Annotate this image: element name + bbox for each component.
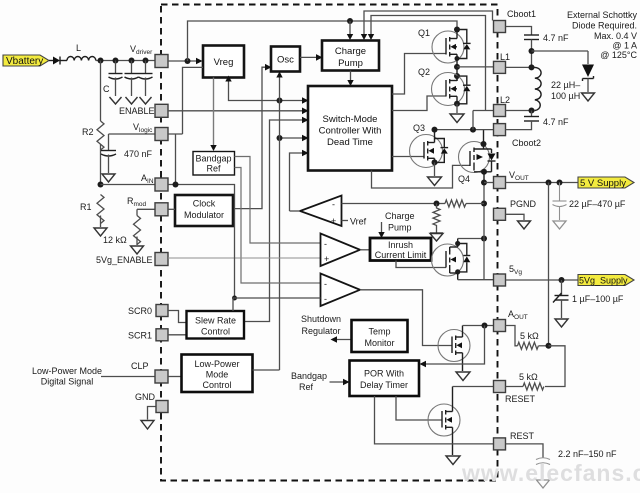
ground under 1uF xyxy=(555,319,568,327)
wire A_OUT node to POR input arrow xyxy=(420,326,485,368)
wire SCR0 to Slew Rate Control xyxy=(168,311,187,323)
wire Low-Power Control output riser xyxy=(253,369,280,371)
wire U3 output to A_OUT transistor gate xyxy=(360,290,452,346)
block Switch-Mode Controller With Dead Time xyxy=(308,86,392,171)
ground under divider xyxy=(430,233,443,241)
svg-text:Cboot1: Cboot1 xyxy=(507,9,536,19)
svg-text:Controller With: Controller With xyxy=(319,126,382,137)
svg-text:Charge: Charge xyxy=(335,46,366,57)
wire GND pin to ground xyxy=(148,407,157,420)
svg-text:Diode Required.: Diode Required. xyxy=(572,21,637,31)
ground under 2.2nF xyxy=(537,480,550,488)
svg-text:Slew Rate: Slew Rate xyxy=(195,316,236,326)
op-amp comparator U3 xyxy=(321,274,361,307)
label external Schottky note xyxy=(567,10,638,60)
svg-text:Vreg: Vreg xyxy=(214,57,234,68)
svg-text:Low-Power: Low-Power xyxy=(194,359,239,369)
pin L2 xyxy=(494,95,511,117)
svg-text:Dead Time: Dead Time xyxy=(327,137,373,148)
svg-text:4.7 nF: 4.7 nF xyxy=(543,117,569,127)
wire Osc to Charge Pump xyxy=(300,54,323,61)
wire controller to Q4 gate xyxy=(372,165,471,188)
svg-text:Q3: Q3 xyxy=(413,123,425,133)
svg-text:5Vg_Supply: 5Vg_Supply xyxy=(579,276,628,286)
wire L2 row inside xyxy=(473,110,494,112)
svg-text:Delay Timer: Delay Timer xyxy=(360,380,408,390)
wire controller to Q1 gate xyxy=(392,54,446,95)
svg-text:R2: R2 xyxy=(82,127,94,137)
svg-text:@ 1 A: @ 1 A xyxy=(612,41,637,51)
svg-text:100 µH: 100 µH xyxy=(551,91,580,101)
svg-text:+: + xyxy=(324,254,329,264)
resistor 5k lower xyxy=(506,346,566,390)
op-amp comparator U1 (error amp, points left) xyxy=(300,196,342,227)
pin 5Vg_ENABLE xyxy=(96,253,168,266)
ground under Q6 xyxy=(456,372,470,381)
ground under 12k resistor xyxy=(131,246,144,254)
wire 5Vg_ENABLE to comparator2 plus xyxy=(168,257,321,259)
svg-text:L2: L2 xyxy=(500,95,510,105)
pin RESET xyxy=(494,381,536,405)
svg-text:Temp: Temp xyxy=(368,327,390,337)
pin ENABLE xyxy=(119,104,168,117)
label Bandgap Ref (input) xyxy=(291,371,327,392)
wire A_OUT row inside xyxy=(463,323,494,329)
block Slew Rate Control xyxy=(187,311,245,339)
svg-text:GND: GND xyxy=(135,392,156,402)
capacitor Cboot1 4.7nF xyxy=(506,27,570,68)
node Q1 drain xyxy=(454,27,460,33)
svg-text:Regulator: Regulator xyxy=(301,326,340,336)
svg-text:Cboot2: Cboot2 xyxy=(512,138,541,148)
svg-text:Charge: Charge xyxy=(385,211,415,221)
capacitor 470nF on Vlogic xyxy=(101,134,156,173)
inductor L xyxy=(67,43,96,61)
wire Slew Rate top output to comparator3 xyxy=(233,298,321,311)
wire Rmod to Clock Modulator xyxy=(168,208,175,210)
svg-text:SCR0: SCR0 xyxy=(128,306,152,316)
pin Cboot2 xyxy=(494,124,542,148)
pin A_OUT xyxy=(494,309,528,332)
wire arrow Temp Monitor to Shutdown Regulator xyxy=(331,336,352,343)
block POR With Delay Timer xyxy=(350,361,420,397)
block Inrush Current Limit xyxy=(370,238,431,261)
Vbattery input tag xyxy=(3,55,49,67)
wire REST pin to cap xyxy=(506,444,544,458)
svg-text:Control: Control xyxy=(201,327,230,337)
ground under C bank xyxy=(110,97,152,104)
ground under Q3 xyxy=(428,177,442,186)
wire U1 output node xyxy=(290,210,301,212)
svg-text:External Schottky: External Schottky xyxy=(567,10,638,20)
charge pump top input arrows xyxy=(347,21,374,40)
wire Clock Modulator output to Osc input xyxy=(233,64,272,209)
pin V_OUT xyxy=(494,170,529,189)
node Q3 source xyxy=(432,159,438,176)
wire low-power riser to controller input 4 xyxy=(277,135,309,142)
transistor Q4 xyxy=(458,130,492,184)
wire V_logic join A_IN row xyxy=(168,134,183,188)
wire A_IN down to comparator3 plus input xyxy=(168,185,237,301)
wire rail B (charge pump to L2 node) xyxy=(371,16,486,111)
svg-text:Control: Control xyxy=(202,380,231,390)
wire Inrush block to Q5 gate xyxy=(396,261,446,268)
ground under Q2 xyxy=(450,114,464,123)
pin R_mod xyxy=(127,196,168,216)
ground at PGND xyxy=(518,221,531,229)
svg-text:Monitor: Monitor xyxy=(364,338,394,348)
svg-text:Low-Power Mode: Low-Power Mode xyxy=(32,366,102,376)
diode external Schottky xyxy=(582,65,594,93)
svg-text:Q1: Q1 xyxy=(418,28,430,38)
svg-text:-: - xyxy=(324,239,327,249)
wire POR to Q7 gate xyxy=(396,396,442,420)
wire V_OUT pin stub inside xyxy=(484,182,494,184)
svg-text:Max. 0.4 V: Max. 0.4 V xyxy=(594,31,637,41)
watermark xyxy=(461,460,640,486)
transistor Q7 (RESET driver) xyxy=(428,387,460,456)
block Clock Modulator xyxy=(175,195,233,226)
wire PGND to ground xyxy=(506,214,525,220)
svg-text:Pump: Pump xyxy=(338,58,363,69)
resistor feedback divider top xyxy=(434,200,485,207)
wire Q5 source to 5Vg pin xyxy=(458,279,494,281)
wire rail C (Vdriver to Q1 drain and charge pump) xyxy=(188,18,458,61)
resistor R1 xyxy=(80,195,104,228)
svg-text:L: L xyxy=(76,43,81,53)
tag 5Vg_Supply xyxy=(578,275,634,286)
wire Bandgap Ref arrow into POR xyxy=(330,379,350,386)
label Shutdown Regulator xyxy=(301,314,341,336)
diode D at battery input xyxy=(49,57,67,65)
wire Q5 drain to output rail xyxy=(458,236,487,242)
block Bandgap Ref xyxy=(193,152,235,176)
node Vref at U1 plus input xyxy=(342,217,367,227)
svg-text:-: - xyxy=(324,279,327,289)
svg-text:L1: L1 xyxy=(500,52,510,62)
svg-text:Shutdown: Shutdown xyxy=(301,314,341,324)
svg-text:Bandgap: Bandgap xyxy=(291,371,327,381)
wire controller to Q3 gate xyxy=(392,156,424,158)
wire rail A (charge pump to Cboot1) xyxy=(364,11,493,38)
wire L1 pin to inductor xyxy=(506,64,536,70)
wire Charge Pump to controller top xyxy=(347,71,353,87)
ground under R1 xyxy=(94,228,127,245)
svg-text:-: - xyxy=(332,200,335,210)
svg-text:SCR1: SCR1 xyxy=(128,331,152,341)
svg-text:Ref: Ref xyxy=(206,164,221,174)
svg-text:POR With: POR With xyxy=(364,369,404,379)
svg-text:5 V Supply: 5 V Supply xyxy=(580,178,626,189)
svg-text:5 kΩ: 5 kΩ xyxy=(520,331,539,341)
svg-text:22 µF–470 µF: 22 µF–470 µF xyxy=(569,199,626,209)
node A_IN rail xyxy=(98,182,156,188)
svg-text:Q4: Q4 xyxy=(458,174,470,184)
diode Q1 body xyxy=(455,30,471,62)
svg-text:C: C xyxy=(103,84,110,94)
resistor R2 xyxy=(82,61,104,185)
wire battery rail xyxy=(96,60,156,62)
node schottky branch xyxy=(529,48,589,64)
pin SCR1 xyxy=(128,329,168,341)
ground under 470nF xyxy=(102,174,115,182)
capacitor 1uF-100uF xyxy=(553,280,624,318)
wire POR to REST pin xyxy=(375,396,494,444)
svg-text:470 nF: 470 nF xyxy=(124,149,153,159)
svg-text:22 µH–: 22 µH– xyxy=(551,80,580,90)
pin V_driver xyxy=(130,44,168,68)
node Q2 source xyxy=(454,101,460,113)
ground under Q7 xyxy=(446,456,460,465)
wire controller to Q2 gate xyxy=(392,96,446,111)
pin L1 xyxy=(494,52,511,73)
transistor Q2 xyxy=(418,67,465,106)
svg-text:Bandgap: Bandgap xyxy=(195,154,231,164)
block Osc xyxy=(271,47,300,72)
wire low-power control riser to Osc bottom xyxy=(276,72,282,371)
ground under Schottky xyxy=(582,93,595,101)
wire Vdriver to Vreg xyxy=(168,58,203,65)
wire slew-rate riser to controller input 3 xyxy=(244,117,309,322)
svg-text:Pump: Pump xyxy=(388,223,412,233)
block Temp Monitor xyxy=(352,320,408,352)
pin Cboot1 xyxy=(494,9,537,33)
node L1 switch junction xyxy=(454,64,494,81)
svg-text:Q2: Q2 xyxy=(418,67,430,77)
transistor Q5 (inrush FET) xyxy=(432,239,464,280)
transistor Q6 (A_OUT driver) xyxy=(438,326,470,372)
wire Vreg to Bandgap Ref xyxy=(210,78,216,152)
transistor Q1 xyxy=(418,28,464,67)
wire U1 minus input to feedback node xyxy=(342,203,437,205)
svg-text:1 µF–100 µF: 1 µF–100 µF xyxy=(572,294,624,304)
capacitor 22uF-470uF xyxy=(553,183,626,221)
pin PGND xyxy=(494,199,537,220)
wire ENABLE to controller input 2 xyxy=(168,108,309,115)
Low-Power Mode Digital Signal label and wire xyxy=(32,366,156,387)
wire SCR1 to Slew Rate Control xyxy=(168,334,187,336)
pin REST xyxy=(494,431,535,450)
block Vreg U-REG xyxy=(203,46,244,78)
block Charge Pump xyxy=(322,41,379,71)
diode Q2 body xyxy=(457,76,471,104)
node battery rail junctions xyxy=(98,58,149,64)
resistor feedback divider bottom xyxy=(433,204,440,233)
wire Bandgap to comparator2 minus xyxy=(235,157,321,244)
svg-text:PGND: PGND xyxy=(510,199,537,209)
label Charge Pump (inrush) xyxy=(385,211,415,233)
svg-text:Vref: Vref xyxy=(350,217,367,227)
pin GND xyxy=(135,392,168,413)
diode Q3 body xyxy=(435,139,449,163)
capacitor 2.2nF-150nF xyxy=(536,449,617,479)
svg-text:Inrush: Inrush xyxy=(388,240,413,250)
op-amp comparator U2 xyxy=(321,234,361,267)
svg-text:CLP: CLP xyxy=(131,361,149,371)
transistor Q3 xyxy=(410,123,443,168)
pin CLP xyxy=(131,361,168,383)
svg-text:12 kΩ: 12 kΩ xyxy=(103,235,127,245)
wire V_logic riser to Vreg lower input xyxy=(183,67,204,134)
svg-text:RESET: RESET xyxy=(505,394,536,404)
svg-text:Mode: Mode xyxy=(206,370,229,380)
resistor 5k upper xyxy=(506,326,552,350)
svg-text:Clock: Clock xyxy=(193,199,216,209)
wire RESET row inside xyxy=(453,386,494,388)
svg-text:5Vg_ENABLE: 5Vg_ENABLE xyxy=(96,255,153,265)
wire L2 pin row xyxy=(506,108,536,114)
diode Q4 body xyxy=(488,149,496,172)
svg-text:2.2 nF–150 nF: 2.2 nF–150 nF xyxy=(558,449,617,459)
svg-text:Vbattery: Vbattery xyxy=(6,56,43,67)
svg-text:5 kΩ: 5 kΩ xyxy=(519,372,538,382)
block Low-Power Mode Control xyxy=(182,355,253,393)
svg-text:Current Limit: Current Limit xyxy=(375,250,427,260)
pin A_IN xyxy=(141,173,168,191)
ground at GND pin xyxy=(141,421,154,430)
wire output riser Q4 source down xyxy=(481,180,487,280)
diode Q5 body xyxy=(458,244,471,272)
wire CLP to Low-Power Mode Control xyxy=(168,376,182,378)
svg-text:@ 125°C: @ 125°C xyxy=(600,50,637,60)
capacitor C bank (3 caps) xyxy=(103,61,153,97)
svg-text:Modulator: Modulator xyxy=(184,210,224,220)
ground under 22uF xyxy=(553,221,566,229)
wire comparator output to controller input 5 xyxy=(290,150,309,211)
wire 5Vg to 5Vg_Supply tag xyxy=(506,277,579,283)
svg-text:Switch-Mode: Switch-Mode xyxy=(323,114,378,125)
pin V_logic xyxy=(133,122,168,141)
wire Bandgap to comparator3 minus xyxy=(235,168,321,284)
wire Vreg feedback loop to controller input 1 xyxy=(225,76,308,104)
pin 5Vg xyxy=(494,264,523,286)
wire pullup riser VOUT to 5k node xyxy=(548,183,550,346)
inductor L1-L2 22uH-100uH xyxy=(532,67,581,110)
capacitor Cboot2 4.7nF xyxy=(506,111,570,130)
svg-text:R1: R1 xyxy=(80,202,92,212)
svg-text:-: - xyxy=(324,294,327,304)
svg-text:ENABLE: ENABLE xyxy=(119,106,155,116)
svg-text:+: + xyxy=(331,216,336,226)
svg-text:Ref: Ref xyxy=(299,382,314,392)
pin SCR0 xyxy=(128,305,168,317)
svg-text:www.elecfans.com: www.elecfans.com xyxy=(461,460,640,486)
svg-text:4.7 nF: 4.7 nF xyxy=(543,33,569,43)
wire charge pump arrow into Inrush block xyxy=(378,222,384,238)
IC boundary dashed border xyxy=(161,5,498,481)
svg-text:Osc: Osc xyxy=(277,55,294,66)
wire V_OUT to 5V Supply tag xyxy=(506,180,579,186)
tag 5 V Supply xyxy=(578,177,634,189)
node Cboot2 rail xyxy=(432,111,494,133)
wire U2 output to Inrush block xyxy=(360,249,370,251)
svg-text:Digital Signal: Digital Signal xyxy=(41,377,94,387)
svg-text:REST: REST xyxy=(510,431,535,441)
resistor 12k on Rmod xyxy=(134,209,156,245)
